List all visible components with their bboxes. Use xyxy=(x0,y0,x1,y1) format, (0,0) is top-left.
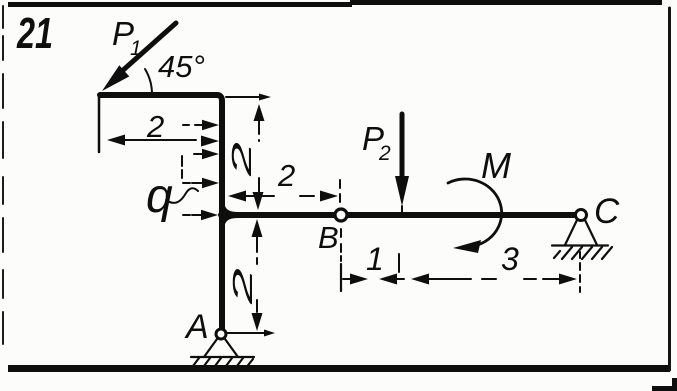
angle arc xyxy=(145,69,152,95)
node B dashed line xyxy=(340,180,341,261)
reference line at A xyxy=(226,332,268,334)
support C (triangle + ground) xyxy=(552,220,612,259)
pin C xyxy=(576,210,587,221)
dimension 2 (lower vertical) xyxy=(252,219,263,331)
dimension 2 (upper vertical) xyxy=(253,104,265,210)
extension line left xyxy=(98,97,101,152)
svg-text:2: 2 xyxy=(146,109,164,144)
svg-text:1: 1 xyxy=(130,37,142,60)
svg-text:A: A xyxy=(184,308,209,346)
svg-text:45°: 45° xyxy=(158,49,205,84)
distributed load q arrows xyxy=(183,125,206,215)
svg-text:C: C xyxy=(594,192,620,231)
svg-text:2: 2 xyxy=(277,158,295,193)
force P1 (arrow at 45 deg into corner) xyxy=(102,23,176,91)
svg-text:3: 3 xyxy=(501,241,519,277)
svg-text:21: 21 xyxy=(16,9,53,58)
junction fillet at beam/column xyxy=(222,206,238,224)
support A (triangle + ground) xyxy=(190,339,254,370)
dimension 3 (bottom) xyxy=(411,274,577,285)
svg-text:2: 2 xyxy=(378,142,391,165)
svg-text:2: 2 xyxy=(227,267,258,306)
node C dashed line xyxy=(579,252,581,292)
pin A xyxy=(216,329,226,339)
member: top horizontal bar + vertical column (frame) xyxy=(100,95,222,330)
extension line top right xyxy=(226,96,262,98)
moment M arc xyxy=(448,179,502,253)
svg-text:q: q xyxy=(146,170,173,223)
q bracket dashes xyxy=(181,156,183,178)
q leader line xyxy=(166,188,198,203)
force P2 (vertical arrow) xyxy=(395,114,409,213)
dimension 1 (bottom) xyxy=(341,254,404,291)
svg-text:2: 2 xyxy=(226,141,257,178)
pin B xyxy=(335,209,347,221)
member: horizontal beam xyxy=(221,212,576,218)
svg-text:B: B xyxy=(318,220,339,255)
dimension 2 (top, horizontal) xyxy=(107,135,219,147)
dimension 2 (horizontal at B) xyxy=(228,191,338,202)
svg-text:1: 1 xyxy=(366,241,384,277)
svg-text:M: M xyxy=(481,145,511,186)
